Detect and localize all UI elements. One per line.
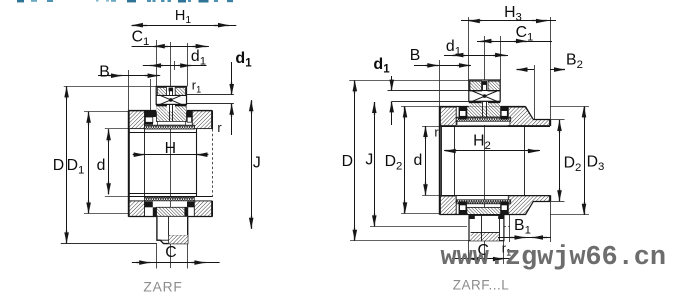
svg-text:J: J (365, 152, 373, 169)
svg-text:r: r (217, 120, 222, 135)
svg-text:D: D (342, 153, 353, 170)
svg-text:ZARF: ZARF (143, 280, 182, 295)
svg-text:ZARF...L: ZARF...L (453, 278, 510, 293)
svg-text:C: C (165, 244, 176, 261)
svg-text:B: B (99, 64, 110, 81)
svg-text:J: J (253, 155, 261, 172)
svg-text:D: D (53, 157, 64, 174)
svg-text:www.zgwjw66.cn: www.zgwjw66.cn (441, 243, 666, 273)
svg-text:H: H (165, 140, 176, 157)
svg-text:d: d (97, 157, 106, 174)
svg-text:r: r (434, 125, 439, 140)
svg-text:d: d (414, 152, 423, 169)
svg-text:B: B (410, 47, 421, 64)
